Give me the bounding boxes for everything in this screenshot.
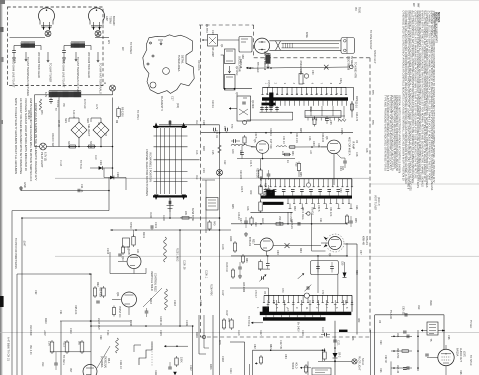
left side sync parts [233,243,236,251]
agc pot arrow [259,275,266,282]
bottom box A [230,341,245,343]
svg-text:C118: C118 [221,356,224,362]
svg-text:C103: C103 [106,248,109,255]
svg-text:1ST VID: 1ST VID [269,139,272,149]
svg-text:L22: L22 [281,151,284,156]
AGC arrow into tuner [246,67,254,69]
main bus y256 [231,255,347,257]
channel selector top bar [153,126,187,128]
mid components r35 [297,164,300,171]
svg-text:C50: C50 [339,188,342,193]
svg-text:F1 2A: F1 2A [59,160,62,167]
svg-text:R13: R13 [195,175,197,180]
svg-text:R102 1 MEG: R102 1 MEG [176,248,178,262]
pilot light I1 [40,143,47,150]
svg-text:TERM: TERM [109,16,113,23]
Q5 base feed [247,146,256,147]
capacitor C11 [77,189,79,193]
wire between video stages [296,146,327,148]
svg-text:AUDIO OUT: AUDIO OUT [459,348,462,362]
IF left column extra res [241,256,244,262]
svg-text:FB: FB [263,291,265,294]
stairstep dotted guide [151,341,153,366]
svg-text:Q4 MIX: Q4 MIX [251,100,254,109]
selector rail 1 [156,128,158,194]
svg-text:BOARD: BOARD [112,16,116,25]
svg-text:C109: C109 [185,320,188,326]
interstage resistor R31 [289,146,297,148]
svg-text:C117 05: C117 05 [279,340,282,350]
svg-text:VOLTAGES SHOULD HOLD WITHIN LI: VOLTAGES SHOULD HOLD WITHIN LIMITS INDIC… [24,98,28,171]
svg-text:R45: R45 [231,204,234,209]
AGC rail resistor [218,145,222,153]
svg-text:3300: 3300 [229,236,231,242]
bottom box C [312,368,331,375]
audio section left border [374,315,376,375]
svg-text:TO PIN 4: TO PIN 4 [136,110,138,120]
sound bus lower caps [287,202,289,204]
svg-text:R31: R31 [291,151,294,156]
svg-text:R66: R66 [355,205,358,210]
R120 resistor [323,352,326,359]
svg-text:VERT TUNER: VERT TUNER [374,195,377,210]
svg-text:TO KINE SOCKET: TO KINE SOCKET [369,30,371,50]
vert out resistor bank 3 [80,342,84,352]
comb1 right bracket bus [305,115,345,117]
svg-text:C21: C21 [223,126,226,131]
terminal strip box [206,198,218,211]
audio stub wire 3 [391,367,412,369]
bus y218 resistor [180,217,192,219]
filament wire [47,146,113,148]
sound takeoff bus [261,178,352,180]
IF section dashed border top-left run [199,24,254,26]
svg-text:TO UHF TUNER: TO UHF TUNER [49,63,53,82]
agc amp transistor Q8 [329,237,342,250]
y224 cap [297,222,299,226]
svg-text:C13: C13 [211,30,214,35]
svg-text:6.3V 2A: 6.3V 2A [72,110,75,119]
B+ feed thick bar [262,97,348,100]
terminal strip stub [205,180,207,233]
svg-text:C47: C47 [239,218,242,223]
filament winding T2 [49,92,81,97]
selector shaft drop [169,212,171,218]
heater wire long [248,67,349,68]
svg-text:ON-OFF: ON-OFF [27,110,30,120]
svg-text:C52 5: C52 5 [317,205,320,212]
long AGC rail x220 [219,125,221,375]
diode CR1 [90,167,113,169]
spark cap X [285,243,290,248]
vert out resistor bank 1 [50,342,54,352]
agc thick bar main [260,312,352,315]
svg-text:C110: C110 [69,328,72,334]
channel selector top contact right [182,123,187,129]
selector rung 1 [154,135,188,137]
svg-text:R106 470K: R106 470K [210,284,212,296]
peaking coil L21 [231,144,247,146]
svg-text:INTERLOCK: INTERLOCK [29,168,31,182]
c120 cap on dashed [324,333,326,337]
svg-text:TO DEFL: TO DEFL [62,355,65,366]
svg-text:C66 2000: C66 2000 [242,282,244,293]
wire left drop [34,95,36,147]
boost cap above bus [299,74,303,85]
svg-text:R11: R11 [195,120,197,125]
svg-text:R117: R117 [259,330,262,336]
sound bus bottom parts [289,203,291,208]
svg-text:2ND ANODE: 2ND ANODE [299,61,302,76]
UHF output arrow 2 [97,52,99,62]
audio output tube V4 [438,349,454,365]
output transformer T5 [427,322,438,335]
svg-text:T5 SEC: T5 SEC [469,320,471,328]
comb1 right components [351,101,353,118]
svg-text:150 100V: 150 100V [278,216,280,226]
noise gate transistor Q7 [260,238,273,251]
Q6 collector parts [333,154,335,185]
svg-text:SR1: SR1 [64,118,67,123]
x318 drop [317,256,319,293]
vert out resistor bank 2 [65,342,69,352]
scan registration black mark [0,296,4,307]
bus wire y224 [231,223,347,225]
svg-text:DL1: DL1 [309,107,312,112]
comb1 lower ticks [265,101,267,106]
svg-text:117V AC: 117V AC [83,99,86,109]
audio coupling caps [403,330,407,332]
svg-text:LIMITS SHOWN ON THE CHASSIS WI: LIMITS SHOWN ON THE CHASSIS WILL BE WITH… [29,98,33,169]
gun cathode resistor [266,55,271,64]
svg-text:R58: R58 [355,270,358,275]
page top scan edge [0,0,479,2]
selector shaft [169,198,171,212]
bottom cap+diode [168,366,172,368]
svg-text:DETAIL: DETAIL [181,55,185,64]
svg-text:R54 12K: R54 12K [329,207,332,217]
emitter stack wire [260,159,262,170]
selector rail 3 [164,128,166,194]
svg-text:R95 10K: R95 10K [74,305,77,315]
nested corner 2 [203,315,205,348]
svg-text:TO PIN 3 OF PWR TRANS: TO PIN 3 OF PWR TRANS [14,238,18,269]
svg-text:CONTROL R112: CONTROL R112 [154,273,157,292]
bus y230 cap [150,225,152,229]
svg-text:C96 .02: C96 .02 [396,365,398,374]
svg-text:R61: R61 [245,258,248,263]
svg-text:KINE: KINE [305,32,308,38]
pilot lamp symbol I2 [110,85,116,91]
kinescope gun hatch [282,43,284,48]
vert out pointer [97,346,110,368]
svg-text:T103: T103 [106,330,108,336]
video amp transistor Q5 [256,141,269,154]
svg-text:R48: R48 [365,148,368,153]
emitter stack capacitor C45 [267,173,271,175]
terminal strip parts [208,222,211,229]
resistor R8 on filament wire [87,146,96,148]
left rail x12 [11,211,13,375]
svg-text:R46: R46 [246,206,249,211]
svg-text:6GN8 SYNC: 6GN8 SYNC [191,208,193,222]
x193 drop [192,326,194,375]
svg-text:C100: C100 [162,215,164,221]
svg-text:R110: R110 [44,318,47,324]
y224 resistor [274,223,285,225]
svg-text:RT1: RT1 [40,110,43,115]
delay line box [305,111,341,118]
svg-text:C104: C104 [221,244,223,250]
svg-text:R91 2.2K: R91 2.2K [29,345,31,355]
bus wire y190 [21,190,109,192]
svg-text:R109: R109 [199,300,202,306]
V4 bottom lead [445,366,447,375]
svg-text:W1: W1 [107,40,110,44]
svg-text:R116: R116 [195,332,198,338]
svg-text:C41 5: C41 5 [249,160,252,167]
bottom r 100K [175,358,178,365]
sync sep input parts [123,238,130,247]
audio top cap C90 [404,313,406,317]
svg-text:C92: C92 [34,290,37,295]
kinescope neck bottom line [269,49,341,51]
video emitter wire [237,158,295,160]
svg-text:R52: R52 [293,206,296,211]
dashed border grommet [202,335,205,338]
AGC line wire x357 [345,243,357,245]
B+ feed left stub thick [262,103,276,106]
svg-text:C111 40: C111 40 [119,360,122,369]
page left scan edge [0,0,2,375]
heater wire junction [270,67,272,69]
svg-text:R97: R97 [69,368,71,373]
Q8 arrows [324,237,328,240]
svg-text:R28: R28 [317,143,320,148]
damper diode CR8 [333,353,338,358]
svg-text:R114: R114 [229,368,232,374]
svg-text:C55: C55 [341,261,343,266]
width coil parts right [121,247,124,253]
svg-text:C94: C94 [59,310,62,315]
svg-text:300 OHM TWIN LEAD: 300 OHM TWIN LEAD [37,52,41,78]
IF section dashed border right [369,58,371,335]
svg-text:C11 .01: C11 .01 [80,184,83,193]
transformer left mid [17,273,92,275]
x213 drop [212,315,214,375]
channel selector wiper stub [169,120,171,126]
svg-text:FROM VALUES SHOWN ON THE SCHEM: FROM VALUES SHOWN ON THE SCHEMATIC DIAGR… [34,103,38,181]
sound bus right drop [351,179,353,196]
svg-text:C120: C120 [321,327,323,333]
svg-text:C112: C112 [189,365,192,371]
VHF trap capacitor C1 [12,50,16,52]
svg-text:R92: R92 [96,282,99,287]
svg-text:B7B-Z/1: B7B-Z/1 [248,237,251,247]
plate hole 1 [163,68,170,75]
vert bank bus [50,351,91,353]
svg-text:CR1: CR1 [99,160,102,166]
svg-text:R90: R90 [379,340,382,345]
svg-text:R98: R98 [459,370,462,375]
below parts r [259,262,262,270]
svg-text:R49: R49 [249,190,251,195]
B+ feed left riser thick [269,93,273,107]
wire y350 [253,349,326,351]
nested corner 1 [198,315,200,354]
svg-text:NO.44: NO.44 [361,358,364,366]
bottom box B [252,350,254,375]
svg-text:SPARK GAP: SPARK GAP [373,50,376,64]
svg-text:R22 1K: R22 1K [269,128,272,136]
svg-text:6.3V: 6.3V [44,92,47,97]
svg-text:R104 1M: R104 1M [225,262,227,272]
wire center drop [58,97,60,147]
svg-text:1K: 1K [286,160,289,163]
kine socket bus [263,86,347,88]
VHF antenna input dashed enclosure [8,7,104,86]
svg-text:R107: R107 [225,310,227,316]
audio stub wire 2 [391,350,412,352]
tuner interconnect wire [223,55,225,89]
VHF lightning arrestor E1 [45,31,51,37]
video bus wire y132 [201,132,353,134]
svg-text:C106 .1: C106 .1 [205,270,207,279]
plate rivet 2 [152,55,154,57]
svg-text:C119: C119 [301,330,304,336]
svg-text:TO VHF ANT TERMINALS: TO VHF ANT TERMINALS [99,63,103,94]
svg-text:300 OHM LINE TO ANT: 300 OHM LINE TO ANT [62,60,66,88]
svg-text:R55: R55 [354,218,357,223]
svg-text:AGC: AGC [261,218,264,224]
bus wire y230 [110,229,231,231]
svg-text:VERTICAL HOLD: VERTICAL HOLD [150,271,153,291]
left box partial [230,287,269,289]
left edge sprocket mark 3 [0,120,3,124]
svg-text:2N2612(A): 2N2612(A) [104,356,107,368]
agc bus terminal circle [304,293,309,298]
svg-text:C70 47: C70 47 [254,290,257,298]
svg-text:(C97): (C97) [463,351,466,357]
emitter resistor stack 2 [259,186,262,194]
slant arrow mid [298,273,304,278]
svg-text:C19: C19 [202,168,205,173]
svg-text:TP2: TP2 [230,124,233,129]
svg-text:+24V: +24V [43,330,46,336]
comb1 right bracket resistor [314,116,316,119]
svg-text:C115: C115 [159,330,162,336]
svg-text:R62 8.2K: R62 8.2K [290,219,293,229]
agc comb right drop [351,295,353,311]
svg-text:C101: C101 [154,222,157,229]
kine socket bus right corner [346,86,348,88]
svg-text:6.3V (2): 6.3V (2) [44,152,48,161]
filament bus left [35,94,50,96]
interstage coil L22 [276,146,287,147]
audio stub wire 1 [391,335,412,337]
svg-text:180K: 180K [209,364,212,370]
V4 grid lead [430,357,438,359]
keyer box cap 1 [316,266,320,268]
left rail x21 [21,218,23,375]
svg-text:PILOT LIGHT: PILOT LIGHT [358,356,361,371]
svg-text:560: 560 [78,341,81,346]
2nd video amp transistor Q6 [327,140,341,154]
svg-text:C71: C71 [286,308,289,313]
svg-text:HORIZ: HORIZ [291,362,293,370]
svg-text:R82: R82 [269,344,272,349]
svg-text:C92 02: C92 02 [384,355,387,363]
wire y321 [60,320,132,322]
agc bar left blob [263,307,270,313]
box Q1 to mixer wire [218,39,240,41]
svg-text:C88: C88 [351,336,353,341]
svg-text:C116: C116 [237,330,239,336]
svg-text:300 OHM LINE TO ANT: 300 OHM LINE TO ANT [12,60,16,88]
plate rivet 1 [149,42,151,44]
mid left parts [93,288,96,296]
svg-text:R80: R80 [344,300,347,305]
right bracket parts [222,320,225,328]
svg-text:R9 1200: R9 1200 [121,107,125,117]
x338 drop [337,275,339,296]
svg-text:1B3GT/8016: 1B3GT/8016 [347,56,350,71]
horizontal fold crease [0,332,479,334]
svg-text:TP5: TP5 [371,90,374,95]
svg-text:R15: R15 [355,96,358,101]
svg-text:R34: R34 [262,192,265,197]
svg-text:SR-2: SR-2 [338,352,340,358]
wire y326 ext [146,325,193,327]
svg-text:1.5K: 1.5K [48,341,51,346]
svg-text:C35: C35 [329,120,332,125]
heater terminal [350,65,354,69]
svg-text:IF AMP: IF AMP [352,141,355,150]
emitter resistor stack 1 [259,170,262,178]
UHF output arrow 1 [75,52,77,61]
svg-text:TP3: TP3 [205,28,208,33]
svg-text:R99: R99 [99,335,102,340]
svg-text:C14 01: C14 01 [215,130,218,138]
svg-text:R108 1K: R108 1K [159,316,162,326]
svg-text:TO ANT TERMINALS ON TUNER: TO ANT TERMINALS ON TUNER [26,57,30,96]
selector bottom contact left [154,195,159,201]
bottom small parts [259,357,262,363]
selector bottom contact right [182,195,187,201]
wire lamp to filament bus [112,91,114,95]
svg-text:R121: R121 [63,341,66,347]
x357 top parts [345,216,348,223]
svg-text:C48: C48 [355,152,358,157]
x91 rail [90,274,92,375]
oscillator box Q3 [225,75,236,91]
bold mark above crease [339,330,348,332]
comb1 left bracket bus [260,111,293,113]
svg-text:C17: C17 [171,96,174,101]
video bus caps [213,128,215,132]
svg-text:R94 470K: R94 470K [396,348,398,359]
VHF loop antenna AN1 [39,8,55,21]
svg-text:Q2 OSC: Q2 OSC [235,66,238,76]
svg-text:CR2: CR2 [116,172,119,178]
svg-text:C105 .05: C105 .05 [183,260,185,270]
svg-text:OTHERWISE SPECIFIED DIRECTION: OTHERWISE SPECIFIED DIRECTION OF ARROWS … [402,11,405,182]
svg-text:PILOT LIGHT: PILOT LIGHT [40,152,44,168]
T5 arrows [421,330,427,332]
svg-text:C108: C108 [129,320,132,326]
agc trim terminal [307,212,310,215]
VHF output arrow 1 [25,52,27,61]
